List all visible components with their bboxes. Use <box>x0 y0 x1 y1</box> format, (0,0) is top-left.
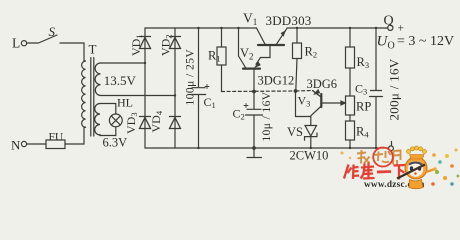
junction R2-V3 collector node <box>294 89 298 93</box>
resistor R1 <box>221 28 223 47</box>
svg-text:100μ / 25V: 100μ / 25V <box>185 49 197 106</box>
wire <box>65 143 84 145</box>
mascot <box>397 146 437 189</box>
junction bridge AC2 <box>174 94 176 96</box>
wire <box>101 62 146 64</box>
junction bridge AC1 <box>144 62 146 64</box>
wire <box>101 95 176 97</box>
wire dashed node <box>222 90 296 93</box>
svg-text:= 3 ~ 12V: = 3 ~ 12V <box>397 34 454 49</box>
svg-text:O: O <box>388 41 395 52</box>
capacitor C3 <box>370 28 383 148</box>
wire <box>27 42 38 44</box>
bottom rail <box>145 147 389 149</box>
lamp HL <box>109 114 122 127</box>
svg-text:200μ / 16V: 200μ / 16V <box>387 58 402 120</box>
resistor R4 <box>346 121 355 140</box>
transistor V2 <box>239 28 246 68</box>
ground <box>247 148 262 158</box>
terminal N <box>21 141 26 146</box>
resistor R2 <box>296 28 298 43</box>
svg-text:RP: RP <box>356 100 371 114</box>
faded orange characters <box>357 150 401 165</box>
junction VS bottom <box>310 147 312 149</box>
junction R4 bottom <box>349 147 351 149</box>
svg-text:3DD303: 3DD303 <box>266 13 312 28</box>
top rail right <box>287 27 388 29</box>
svg-text:3DG12: 3DG12 <box>258 74 295 88</box>
resistor R3 <box>349 28 351 47</box>
junction C2 ground node <box>252 146 256 150</box>
transformer T primary winding <box>82 61 86 127</box>
svg-text:+: + <box>398 23 405 35</box>
svg-text:FU: FU <box>49 132 64 144</box>
terminal minus <box>389 146 394 151</box>
wire <box>84 61 86 144</box>
bridge left branch <box>144 28 146 148</box>
svg-text:VS: VS <box>287 125 303 139</box>
wire <box>27 143 46 145</box>
junction C1 bottom <box>197 147 199 149</box>
terminal L <box>21 41 26 46</box>
diode VD1 <box>140 37 151 49</box>
svg-text:L: L <box>12 36 20 51</box>
junction R1 top <box>220 27 222 29</box>
switch S <box>39 35 58 43</box>
red circle <box>373 148 393 167</box>
transformer core <box>91 58 94 137</box>
top rail left <box>145 27 257 29</box>
watermark group <box>341 146 460 189</box>
svg-text:S: S <box>49 24 56 39</box>
diode VD3 <box>140 117 151 129</box>
zener VS <box>305 126 317 137</box>
transformer secondary 6.3V <box>95 104 100 136</box>
junction C2-V2 base node <box>252 90 256 94</box>
red characters weiku yixia <box>344 163 406 180</box>
svg-text:13.5V: 13.5V <box>104 73 137 88</box>
junction C3 top <box>375 27 377 29</box>
junction V2 collector top <box>237 27 239 29</box>
wire <box>60 43 84 61</box>
confetti <box>341 149 460 186</box>
capacitor C1 <box>191 28 205 148</box>
svg-text:2CW10: 2CW10 <box>290 149 329 163</box>
diode VD2 <box>170 37 181 49</box>
wire <box>100 127 116 136</box>
junction C1 top <box>197 27 199 29</box>
junction R3 top <box>349 27 351 29</box>
junction R2 top <box>296 27 298 29</box>
svg-text:T: T <box>89 42 97 57</box>
potentiometer RP <box>346 96 355 115</box>
transformer secondary 13.5V <box>95 63 100 96</box>
junction C3 bottom <box>375 147 377 149</box>
transistor V1 <box>257 28 266 44</box>
wire <box>100 104 116 115</box>
fuse FU <box>46 140 65 149</box>
capacitor C2 <box>246 92 263 149</box>
svg-text:3DG6: 3DG6 <box>307 77 338 91</box>
diode VD4 <box>170 117 181 129</box>
bridge right branch <box>174 28 176 148</box>
transistor V3 <box>296 91 321 98</box>
svg-text:6.3V: 6.3V <box>103 136 128 150</box>
svg-text:HL: HL <box>117 96 133 110</box>
terminal Q plus <box>388 25 393 30</box>
svg-text:10μ / 16V: 10μ / 16V <box>261 91 273 141</box>
svg-text:N: N <box>11 138 21 153</box>
svg-text:Q: Q <box>384 14 394 29</box>
